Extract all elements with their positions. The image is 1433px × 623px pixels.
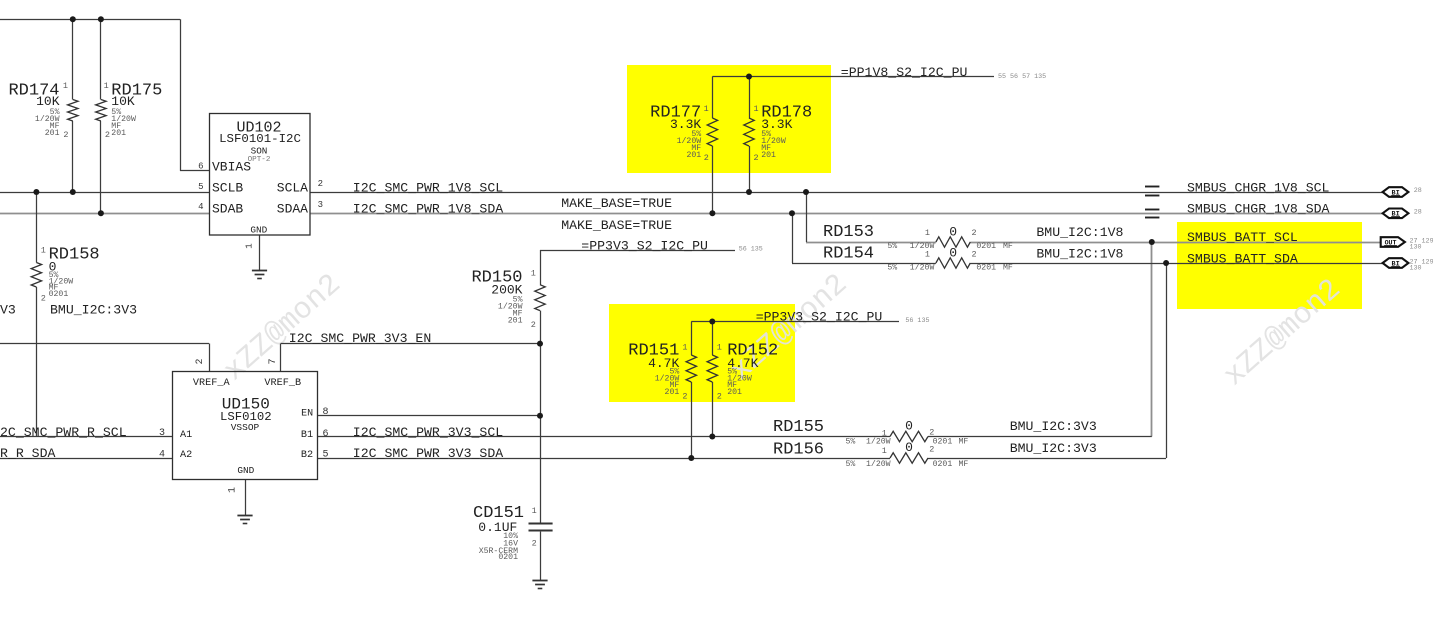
svg-text:56 135: 56 135 xyxy=(905,317,929,325)
svg-text:B1: B1 xyxy=(301,430,313,441)
svg-text:BI: BI xyxy=(1392,189,1400,197)
svg-text:RD154: RD154 xyxy=(823,245,874,264)
svg-text:2: 2 xyxy=(717,391,722,401)
svg-text:OPT-2: OPT-2 xyxy=(248,156,271,164)
svg-text:BMU_I2C:1V8: BMU_I2C:1V8 xyxy=(1036,225,1123,240)
svg-text:MF: MF xyxy=(1003,242,1013,251)
svg-text:1/20W: 1/20W xyxy=(910,262,935,272)
svg-text:B2: B2 xyxy=(301,450,313,461)
svg-text:SCLB: SCLB xyxy=(212,180,243,195)
svg-text:2: 2 xyxy=(531,320,536,330)
svg-text:1: 1 xyxy=(531,269,536,279)
svg-text:VSSOP: VSSOP xyxy=(231,422,260,433)
svg-text:0201: 0201 xyxy=(933,460,953,469)
svg-text:28: 28 xyxy=(1414,187,1422,195)
svg-text:55 56 57 135: 55 56 57 135 xyxy=(998,73,1046,81)
svg-text:MF: MF xyxy=(959,460,969,469)
svg-text:1: 1 xyxy=(228,487,239,493)
svg-text:1/20W: 1/20W xyxy=(866,459,891,469)
svg-text:1: 1 xyxy=(882,446,887,456)
svg-text:RD155: RD155 xyxy=(773,418,824,437)
svg-text:2: 2 xyxy=(972,228,977,238)
svg-text:201: 201 xyxy=(45,129,60,138)
svg-text:8: 8 xyxy=(323,407,329,418)
svg-text:SMBUS_BATT_SCL: SMBUS_BATT_SCL xyxy=(1187,230,1298,245)
svg-text:1: 1 xyxy=(104,81,109,91)
svg-text:130: 130 xyxy=(1410,265,1422,273)
svg-text:201: 201 xyxy=(111,129,126,138)
svg-text:201: 201 xyxy=(508,317,523,326)
svg-text:2: 2 xyxy=(41,294,46,304)
svg-text:1: 1 xyxy=(532,506,537,516)
svg-text:BMU_I2C:1V8: BMU_I2C:1V8 xyxy=(1036,247,1123,262)
svg-text:1/20W: 1/20W xyxy=(910,241,935,251)
svg-text:28: 28 xyxy=(1414,209,1422,217)
svg-text:BMU_I2C:3V3: BMU_I2C:3V3 xyxy=(1010,441,1097,456)
svg-text:MF: MF xyxy=(959,438,969,447)
svg-text:2: 2 xyxy=(63,130,68,140)
svg-text:4: 4 xyxy=(198,202,203,212)
svg-text:5%: 5% xyxy=(846,438,856,447)
svg-text:BI: BI xyxy=(1392,260,1400,268)
svg-text:0: 0 xyxy=(905,440,913,455)
svg-text:I2C_SMC_PWR_3V3_SDA: I2C_SMC_PWR_3V3_SDA xyxy=(353,446,503,461)
svg-text:SON: SON xyxy=(251,145,268,156)
svg-text:2: 2 xyxy=(195,358,206,364)
svg-text:2: 2 xyxy=(532,539,537,549)
svg-text:0201: 0201 xyxy=(976,242,996,251)
svg-text:5%: 5% xyxy=(887,242,897,251)
svg-text:SMBUS_BATT_SDA: SMBUS_BATT_SDA xyxy=(1187,251,1298,266)
svg-text:7: 7 xyxy=(268,358,279,364)
svg-text:1/20W: 1/20W xyxy=(866,437,891,447)
svg-text:3: 3 xyxy=(318,200,323,210)
svg-text:10K: 10K xyxy=(111,94,135,109)
svg-text:BMU_I2C:3V3: BMU_I2C:3V3 xyxy=(50,303,137,318)
svg-text:SMBUS_CHGR_1V8_SCL: SMBUS_CHGR_1V8_SCL xyxy=(1187,180,1330,195)
svg-text:1: 1 xyxy=(925,228,930,238)
svg-text:SDAB: SDAB xyxy=(212,202,243,217)
svg-text:SDAA: SDAA xyxy=(277,202,308,217)
svg-text:1: 1 xyxy=(717,343,722,353)
svg-text:1: 1 xyxy=(682,343,687,353)
svg-text:A1: A1 xyxy=(180,430,192,441)
svg-text:BI: BI xyxy=(1392,211,1400,219)
svg-text:VREF_B: VREF_B xyxy=(264,378,301,389)
svg-text:=PP1V8_S2_I2C_PU: =PP1V8_S2_I2C_PU xyxy=(841,65,968,80)
svg-text:LSF0101-I2C: LSF0101-I2C xyxy=(219,132,301,146)
svg-text:5: 5 xyxy=(198,182,203,192)
svg-text:I2C_SMC_PWR_3V3_SCL: I2C_SMC_PWR_3V3_SCL xyxy=(353,425,503,440)
svg-text:1: 1 xyxy=(704,104,709,114)
svg-text:201: 201 xyxy=(727,388,742,397)
svg-text:2: 2 xyxy=(682,391,687,401)
svg-text:1: 1 xyxy=(63,81,68,91)
svg-text:=PP3V3_S2_I2C_PU: =PP3V3_S2_I2C_PU xyxy=(756,310,883,325)
svg-text:RD153: RD153 xyxy=(823,223,874,242)
svg-text:BMU_I2C:3V3: BMU_I2C:3V3 xyxy=(1010,419,1097,434)
svg-text:=PP3V3_S2_I2C_PU: =PP3V3_S2_I2C_PU xyxy=(581,238,708,253)
svg-text:5%: 5% xyxy=(846,460,856,469)
svg-text:EN: EN xyxy=(301,409,313,420)
svg-text:2: 2 xyxy=(929,428,934,438)
svg-text:VREF_A: VREF_A xyxy=(193,378,231,389)
svg-text:2: 2 xyxy=(754,153,759,163)
svg-text:1: 1 xyxy=(245,243,255,248)
svg-text:201: 201 xyxy=(686,151,701,160)
svg-text:0: 0 xyxy=(949,246,957,261)
svg-text:1: 1 xyxy=(754,104,759,114)
svg-text:201: 201 xyxy=(665,388,680,397)
svg-text:I2C_SMC_PWR_3V3_EN: I2C_SMC_PWR_3V3_EN xyxy=(289,331,431,346)
svg-text:6: 6 xyxy=(323,429,329,440)
svg-text:2C_SMC_PWR_R_SCL: 2C_SMC_PWR_R_SCL xyxy=(0,425,127,440)
svg-text:3: 3 xyxy=(159,428,165,439)
svg-text:SMBUS_CHGR_1V8_SDA: SMBUS_CHGR_1V8_SDA xyxy=(1187,202,1330,217)
svg-text:10K: 10K xyxy=(36,94,60,109)
svg-text:RD156: RD156 xyxy=(773,441,824,460)
svg-text:0201: 0201 xyxy=(49,290,69,299)
svg-text:I2C_SMC_PWR_1V8_SDA: I2C_SMC_PWR_1V8_SDA xyxy=(353,202,503,217)
svg-text:MAKE_BASE=TRUE: MAKE_BASE=TRUE xyxy=(561,196,672,211)
svg-text:5: 5 xyxy=(323,450,329,461)
svg-text:4: 4 xyxy=(159,450,165,461)
svg-text:2: 2 xyxy=(318,179,323,189)
svg-text:0201: 0201 xyxy=(498,553,518,562)
svg-text:MF: MF xyxy=(1003,263,1013,272)
svg-text:MAKE_BASE=TRUE: MAKE_BASE=TRUE xyxy=(561,218,672,233)
svg-text:I2C_SMC_PWR_1V8_SCL: I2C_SMC_PWR_1V8_SCL xyxy=(353,180,503,195)
svg-text:GND: GND xyxy=(237,465,254,476)
svg-text:GND: GND xyxy=(250,225,267,236)
svg-text:0201: 0201 xyxy=(933,438,953,447)
svg-text:1: 1 xyxy=(41,246,46,256)
svg-text:5%: 5% xyxy=(887,263,897,272)
svg-text:56 135: 56 135 xyxy=(739,245,763,253)
svg-text:0: 0 xyxy=(905,419,913,434)
svg-text:201: 201 xyxy=(761,151,776,160)
svg-text:V3: V3 xyxy=(0,303,16,318)
svg-text:2: 2 xyxy=(704,153,709,163)
svg-text:2: 2 xyxy=(105,130,110,140)
svg-text:R_R_SDA: R_R_SDA xyxy=(0,446,55,461)
svg-text:6: 6 xyxy=(198,161,203,171)
svg-text:SCLA: SCLA xyxy=(277,180,308,195)
svg-text:0201: 0201 xyxy=(976,263,996,272)
svg-text:VBIAS: VBIAS xyxy=(212,160,251,175)
svg-text:0: 0 xyxy=(949,225,957,240)
svg-text:130: 130 xyxy=(1410,244,1422,252)
svg-text:A2: A2 xyxy=(180,450,192,461)
